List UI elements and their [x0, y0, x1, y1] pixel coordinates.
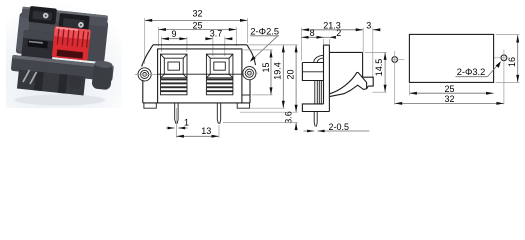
pin right	[217, 103, 220, 123]
svg-text:8: 8	[310, 28, 315, 38]
photo: pin right	[30, 72, 37, 84]
svg-text:2: 2	[336, 28, 341, 38]
photo of speaker terminal	[6, 4, 122, 108]
svg-text:2-0.5: 2-0.5	[329, 122, 350, 132]
photo: bottom feet	[17, 70, 86, 96]
right ear circles	[243, 67, 256, 80]
side: clip arc	[329, 73, 356, 94]
left side edge below ear	[142, 80, 144, 103]
svg-text:19.4: 19.4	[272, 62, 282, 80]
side: clip lower lever	[329, 85, 368, 96]
svg-text:15: 15	[261, 62, 271, 72]
svg-text:3: 3	[366, 20, 371, 30]
dim 32 line	[145, 19, 248, 21]
photo: back top edge slab	[21, 7, 108, 27]
rear rect	[409, 34, 493, 82]
svg-text:9: 9	[171, 29, 176, 39]
photo: top black clip left	[28, 6, 57, 25]
side: pin upper front	[315, 81, 318, 104]
right ledge	[242, 94, 250, 96]
plate chamfer left	[142, 45, 153, 67]
side: rear tab	[363, 77, 374, 86]
svg-text:2-Φ3.2: 2-Φ3.2	[457, 67, 486, 77]
side: pin lower	[314, 112, 317, 127]
left ear circles	[138, 68, 151, 81]
photo: upper body block	[16, 12, 109, 62]
svg-text:32: 32	[444, 94, 454, 104]
svg-text:13: 13	[201, 126, 211, 136]
right hole	[501, 55, 507, 61]
pin centerline left	[175, 108, 177, 127]
side: clip apex and slope	[356, 72, 366, 88]
plate chamfer right	[247, 45, 256, 65]
svg-text:14.5: 14.5	[374, 59, 384, 77]
svg-text:16: 16	[507, 57, 517, 67]
photo: screw left	[43, 13, 49, 19]
side: ear boss arcs	[314, 55, 324, 62]
dim 9 line	[161, 38, 187, 40]
side: pin upper rear	[319, 81, 321, 104]
svg-text:20: 20	[286, 69, 296, 79]
pin left	[175, 103, 178, 123]
photo: post right	[91, 61, 113, 90]
photo background tint	[0, 0, 1, 1]
photo: front-left black clip	[21, 30, 55, 62]
svg-text:3.7: 3.7	[210, 29, 223, 39]
leader 2-phi2.5	[251, 36, 278, 61]
side: foot box	[302, 104, 329, 112]
svg-text:25: 25	[444, 84, 454, 94]
button left	[161, 54, 188, 95]
foot right	[237, 103, 249, 108]
face rect	[158, 49, 242, 103]
left hole	[392, 57, 398, 63]
side: housing top	[329, 52, 362, 77]
foot left	[144, 103, 156, 108]
ear centerline left	[135, 73, 158, 75]
front outline: plate top	[153, 44, 247, 46]
dim 3.7 line arrows outside	[205, 38, 213, 40]
photo: top black clip right	[58, 13, 90, 32]
svg-text:1: 1	[184, 118, 189, 128]
side: ear tab	[302, 63, 323, 81]
photo: soft shadow	[15, 95, 105, 106]
photo: flange plate	[11, 55, 114, 82]
svg-text:2-Φ2.5: 2-Φ2.5	[250, 26, 279, 36]
photo: screw right	[78, 22, 84, 28]
svg-text:3.6: 3.6	[284, 111, 294, 124]
ear centerline right	[242, 72, 258, 74]
svg-text:32: 32	[192, 9, 202, 19]
side: plate	[324, 45, 330, 104]
photo: red clip	[52, 26, 91, 61]
bottom edge	[143, 102, 250, 104]
photo: pin left	[23, 70, 30, 82]
photo: post mid	[68, 75, 81, 89]
ext lines 32	[144, 18, 146, 64]
right side edge below ear	[249, 80, 251, 103]
face parting line	[158, 73, 242, 75]
dim 25 line	[158, 29, 236, 31]
button right	[206, 54, 233, 95]
